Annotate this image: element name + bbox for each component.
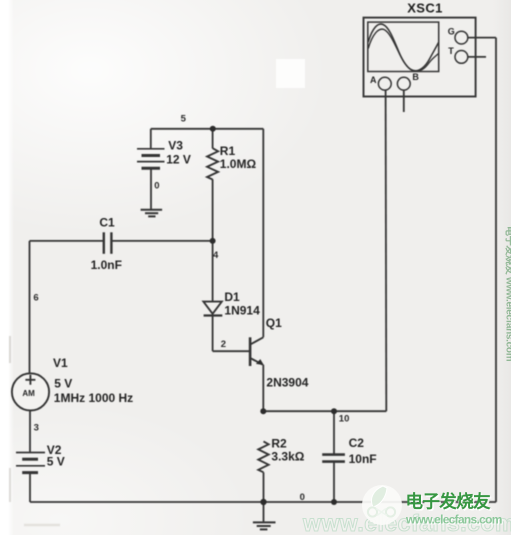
scan smudge left edge upper: [9, 336, 11, 363]
junction node 0 dot ground: [260, 499, 266, 505]
svg-text:G: G: [448, 26, 455, 36]
diode D1: [203, 302, 222, 316]
watermark www.elecfans.com small: [405, 513, 503, 528]
wire V3 positive lead: [150, 129, 152, 149]
wire R2 bottom lead: [263, 472, 265, 502]
svg-text:B: B: [412, 72, 419, 82]
svg-text:10: 10: [339, 413, 350, 424]
battery V3: [137, 149, 165, 168]
svg-text:3.3kΩ: 3.3kΩ: [271, 449, 304, 463]
capacitor C1: [104, 232, 112, 254]
svg-text:1.0nF: 1.0nF: [91, 258, 122, 272]
oscilloscope XSC1: [364, 18, 476, 97]
wire emitter down: [262, 365, 264, 411]
wire collector rail: [262, 129, 264, 337]
wire node6 vertical: [29, 241, 31, 374]
wire R1 top lead: [212, 129, 214, 149]
svg-text:C2: C2: [349, 436, 365, 450]
ground bottom node 0: [253, 522, 276, 529]
battery V2: [16, 453, 45, 473]
white correction patch: [276, 59, 305, 88]
svg-text:12 V: 12 V: [166, 153, 191, 167]
svg-text:R2: R2: [271, 437, 287, 451]
wire right rail down: [495, 38, 497, 502]
source V1 AM: [12, 373, 49, 410]
resistor R1: [207, 148, 218, 179]
ground V3: [141, 210, 163, 217]
svg-text:C1: C1: [99, 215, 115, 229]
scope terminal B: [397, 77, 410, 90]
svg-text:1.0MΩ: 1.0MΩ: [220, 157, 257, 171]
scan smudge left edge lower: [9, 468, 11, 502]
wire scope B stub: [403, 90, 405, 112]
wire base lead node2: [213, 350, 250, 352]
wire node10 horizontal: [263, 410, 386, 412]
svg-text:V1: V1: [53, 356, 68, 370]
svg-text:4: 4: [213, 250, 219, 261]
svg-text:AM: AM: [22, 389, 35, 398]
wire node3 V1 to V2: [29, 411, 31, 453]
svg-text:www.elecfans.com: www.elecfans.com: [405, 513, 502, 527]
wire scope A probe: [385, 90, 388, 411]
svg-text:0: 0: [300, 492, 305, 503]
svg-text:5 V: 5 V: [54, 376, 72, 390]
capacitor C2: [322, 455, 345, 462]
junction node 5 dot: [210, 126, 216, 132]
svg-text:D1: D1: [224, 290, 240, 304]
wire scope G to right rail: [468, 37, 496, 39]
svg-text:XSC1: XSC1: [407, 0, 443, 15]
svg-text:3: 3: [34, 423, 39, 434]
wire C1 left: [30, 240, 104, 242]
svg-text:2: 2: [221, 339, 226, 350]
wire ground stub bottom: [263, 502, 265, 522]
svg-text:1MHz 1000 Hz: 1MHz 1000 Hz: [54, 391, 133, 405]
wire C2 bottom lead: [333, 462, 335, 502]
junction node 4 dot: [210, 238, 216, 244]
watermark logo circle: [362, 485, 402, 525]
junction node 10 dot C2: [331, 408, 337, 414]
wire scope T stub: [468, 56, 486, 58]
scope terminal G: [455, 31, 468, 44]
scope trace sine 1: [368, 24, 438, 71]
svg-text:6: 6: [33, 293, 38, 304]
junction node 10 dot left: [260, 408, 266, 414]
svg-text:V3: V3: [168, 139, 183, 153]
svg-text:电子发烧友 www.elecfans.com: 电子发烧友 www.elecfans.com: [504, 226, 511, 362]
svg-text:2N3904: 2N3904: [266, 375, 308, 389]
wire V2 bottom lead: [29, 473, 31, 502]
wire C2 top lead: [333, 411, 335, 453]
svg-text:T: T: [448, 46, 454, 56]
scope terminal A: [378, 77, 391, 90]
scope terminal T: [455, 51, 468, 64]
svg-text:R1: R1: [220, 144, 236, 158]
scan smudge bottom left: [24, 524, 60, 527]
svg-text:0: 0: [154, 181, 159, 192]
svg-text:5: 5: [181, 113, 187, 124]
svg-text:A: A: [370, 75, 377, 85]
wire D1 cathode to base: [212, 316, 214, 352]
svg-text:10nF: 10nF: [349, 452, 377, 466]
junction node 0 dot C2: [331, 499, 337, 505]
svg-text:电子发烧友: 电子发烧友: [406, 492, 492, 512]
wire R1 bottom to node4 to D1 anode: [212, 179, 214, 301]
wire C1 right to node4: [112, 240, 212, 242]
svg-text:Q1: Q1: [266, 316, 282, 330]
resistor R2: [258, 441, 268, 472]
scope trace sine 2: [368, 29, 438, 71]
wire bottom ground rail node0: [30, 501, 496, 503]
transistor Q1: [250, 337, 264, 366]
watermark Chinese 电子发烧友: [406, 492, 493, 514]
svg-text:1N914: 1N914: [224, 303, 260, 317]
wire V3 to ground: [150, 168, 152, 209]
wire node5 top rail: [151, 128, 263, 130]
svg-text:5 V: 5 V: [47, 455, 65, 469]
